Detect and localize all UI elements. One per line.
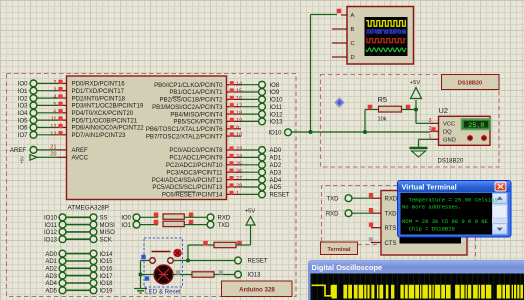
svg-text:Virtual Terminal: Virtual Terminal — [402, 182, 457, 191]
svg-text:TXD: TXD — [327, 196, 340, 202]
svg-text:ROM = 28 30 C5 88 0 0 0 8E: ROM = 28 30 C5 88 0 0 0 8E — [402, 218, 489, 225]
resistor RX1 — [163, 214, 184, 219]
wire button/LED left vertical — [140, 261, 142, 289]
pin 5 PD3/INT1/OC2B/PCINT19 / terminal IO3 — [18, 102, 144, 110]
svg-text:DS18B20: DS18B20 — [458, 81, 482, 87]
svg-text:PD6/AIN0/OC0A/PCINT22: PD6/AIN0/OC0A/PCINT22 — [72, 125, 145, 132]
U2 pin 2 DQ — [429, 126, 453, 135]
virtual terminal text — [402, 196, 498, 232]
pin 2 PD0/RXD/PCINT16 / terminal IO0 — [18, 80, 125, 88]
pin 10 PB7/TOSC2/XTAL2/PCINT7 — [146, 133, 242, 141]
svg-text:13: 13 — [50, 131, 56, 137]
svg-text:PC5/ADC5/SCL/PCINT13: PC5/ADC5/SCL/PCINT13 — [152, 184, 223, 191]
svg-text:4: 4 — [53, 95, 56, 101]
selection handle (blue, logic-low pin square) — [141, 255, 145, 259]
U2 pin 1 GND — [429, 134, 456, 143]
svg-text:3: 3 — [53, 87, 56, 93]
svg-text:AD4: AD4 — [45, 281, 57, 287]
svg-text:No more addresses.: No more addresses. — [402, 204, 461, 211]
svg-text:AD5: AD5 — [45, 289, 57, 295]
svg-text:RXD: RXD — [385, 197, 398, 203]
oscilloscope screen — [365, 17, 408, 56]
header pair IO11 - MOSI — [44, 221, 115, 229]
header pair AD5 - IO19 — [45, 287, 113, 295]
svg-text:IO17: IO17 — [100, 274, 114, 280]
svg-text:IO19: IO19 — [100, 289, 114, 295]
wire +5V vertical — [415, 100, 417, 123]
terminal RXD — [207, 214, 231, 222]
pin 4 PD2/INT0/PCINT18 / terminal IO2 — [18, 94, 126, 102]
wire to U2 VCC — [416, 122, 430, 124]
terminal IO0 — [121, 214, 140, 222]
svg-text:PD2/INT0/PCINT18: PD2/INT0/PCINT18 — [72, 95, 126, 102]
IC U2 DS18B20 body — [439, 116, 491, 145]
svg-text:PB0/ICP1/CLKO/PCINT0: PB0/ICP1/CLKO/PCINT0 — [154, 82, 223, 89]
wire LED cathode to resistor — [173, 270, 192, 274]
junction at LED left — [139, 273, 143, 277]
wire to LED anode — [141, 274, 155, 276]
push button: actuator bar — [152, 251, 171, 253]
waveform channel C (red) — [366, 39, 406, 43]
scope graticule — [312, 274, 521, 300]
wire R to RXD — [184, 213, 207, 218]
pin 28 PC5/ADC5/SCL/PCINT13 / terminal AD5 — [152, 183, 281, 191]
svg-text:R5: R5 — [378, 95, 387, 104]
terminal RESET — [235, 257, 268, 265]
wire horizontal to scope input A — [311, 9, 342, 15]
waveform channel D (green sine) — [366, 48, 406, 52]
svg-text:AD3: AD3 — [45, 274, 57, 280]
wire R-pullup right to +5V — [236, 226, 251, 246]
DS18B20 sub-sheet dashed border — [321, 75, 500, 168]
svg-text:AD0: AD0 — [45, 252, 57, 258]
svg-text:IO9: IO9 — [270, 90, 280, 96]
oscilloscope body — [347, 7, 414, 65]
Terminal sub-sheet dashed border — [322, 186, 398, 243]
resistor R-pullup — [214, 242, 236, 247]
terminal RXD (left) — [326, 210, 352, 218]
resistor R5 — [379, 106, 402, 112]
svg-text:RTS: RTS — [385, 226, 397, 232]
svg-text:PC1/ADC1/PCINT9: PC1/ADC1/PCINT9 — [169, 155, 223, 162]
svg-text:IO16: IO16 — [100, 267, 114, 273]
terminal IO13 (led) — [235, 271, 262, 279]
U2 buttons +/- — [467, 135, 487, 141]
svg-text:IO14: IO14 — [100, 252, 114, 258]
header pair AD2 - IO16 — [45, 265, 113, 273]
resistor R-led — [192, 272, 214, 277]
pin 20 AVCC with +5V power arrow — [20, 152, 89, 164]
junction RESET node — [186, 259, 190, 263]
svg-text:+5V: +5V — [245, 209, 256, 215]
svg-text:GND: GND — [443, 138, 456, 144]
terminal TXD — [207, 221, 230, 229]
wire R5 right to +5V rail — [402, 105, 417, 110]
pin 15 PB1/OC1A/PCINT1 / terminal IO9 — [169, 88, 280, 96]
digital trace (yellow) — [312, 285, 332, 296]
svg-text:D: D — [351, 55, 355, 61]
svg-text:PD5/T1/OC0B/PCINT21: PD5/T1/OC0B/PCINT21 — [72, 117, 138, 124]
svg-text:IO15: IO15 — [100, 259, 114, 265]
terminal component pin CTS — [369, 237, 397, 247]
svg-text:IO12: IO12 — [270, 112, 284, 118]
svg-text:PD3/INT1/OC2B/PCINT19: PD3/INT1/OC2B/PCINT19 — [72, 103, 144, 110]
pin 27 PC4/ADC4/SDA/PCINT12 / terminal AD4 — [152, 176, 282, 184]
svg-text:PB6/TOSC1/XTAL1/PCINT6: PB6/TOSC1/XTAL1/PCINT6 — [146, 126, 223, 133]
svg-text:RESET: RESET — [270, 193, 290, 199]
svg-text:MOSI: MOSI — [100, 223, 116, 229]
svg-text:AREF: AREF — [72, 147, 89, 154]
U2 temperature display 25.0 — [462, 119, 491, 130]
svg-text:IO10: IO10 — [268, 131, 282, 137]
svg-text:IO8: IO8 — [270, 83, 280, 89]
svg-text:PC3/ADC3/PCINT11: PC3/ADC3/PCINT11 — [166, 169, 223, 176]
svg-text:9: 9 — [236, 125, 239, 131]
terminal IO1 — [121, 221, 140, 229]
wire to R5 left — [365, 105, 379, 110]
svg-text:Digital Oscilloscope: Digital Oscilloscope — [312, 263, 383, 272]
svg-text:RXD: RXD — [218, 216, 231, 222]
terminal component pin RXD — [369, 193, 398, 203]
svg-text:DQ: DQ — [443, 130, 452, 136]
svg-text:AD2: AD2 — [270, 163, 282, 169]
svg-text:PC6/RESET/PCINT14: PC6/RESET/PCINT14 — [162, 192, 223, 199]
oscilloscope input B — [332, 27, 355, 33]
pin 12 PD6/AIN0/OC0A/PCINT22 / terminal IO6 — [18, 124, 144, 132]
svg-text:PB7/TOSC2/XTAL2/PCINT7: PB7/TOSC2/XTAL2/PCINT7 — [146, 133, 223, 140]
pin 16 PB2/[SS]/OC1B/PCINT2 / terminal IO10 — [159, 96, 283, 104]
svg-text:IO10: IO10 — [270, 98, 284, 104]
svg-text:CTS: CTS — [385, 241, 397, 247]
svg-text:Chip = DS18B20: Chip = DS18B20 — [402, 226, 455, 233]
header pair AD4 - IO18 — [45, 280, 113, 288]
ground (U2) — [410, 148, 428, 157]
svg-text:6: 6 — [53, 109, 56, 115]
ground (LED group) — [134, 289, 147, 294]
svg-text:21: 21 — [50, 144, 56, 150]
svg-text:AD3: AD3 — [270, 170, 282, 176]
svg-text:AD1: AD1 — [270, 156, 282, 162]
svg-text:MISO: MISO — [100, 230, 116, 236]
svg-text:IO13: IO13 — [44, 237, 58, 243]
svg-text:PB2/SS/OC1B/PCINT2: PB2/SS/OC1B/PCINT2 — [159, 97, 223, 104]
terminal TXD (left) — [327, 195, 352, 203]
pin 6 PD4/T0/XCK/PCINT20 / terminal IO4 — [18, 109, 134, 117]
power +5V (reset pullup) — [245, 209, 256, 226]
svg-text:AD0: AD0 — [270, 148, 282, 154]
svg-text:2: 2 — [53, 80, 56, 86]
header pair IO13 - SCK — [44, 236, 112, 244]
terminal component pin RTS — [369, 223, 397, 233]
wire R to TXD — [184, 220, 207, 225]
Arduino 328 sub-sheet dashed border — [7, 74, 297, 297]
pin 23 PC0/ADC0/PCINT8 / terminal AD0 — [169, 146, 282, 154]
svg-text:10k: 10k — [378, 117, 387, 123]
resistor RX2 — [163, 221, 184, 226]
svg-text:3: 3 — [429, 118, 432, 124]
pin 25 PC2/ADC2/PCINT10 / terminal AD2 — [166, 161, 282, 169]
svg-text:IO12: IO12 — [44, 230, 58, 236]
wire IO10 horizontal to DQ — [292, 131, 431, 133]
svg-text:U2: U2 — [439, 106, 448, 115]
wire resistor to IO13 terminal — [214, 270, 234, 274]
svg-text:12: 12 — [50, 124, 56, 130]
wire to R-pullup left — [188, 241, 214, 246]
svg-text:IO3: IO3 — [18, 104, 28, 110]
oscilloscope input A — [351, 13, 355, 19]
waveform channel B (blue) — [366, 30, 406, 33]
svg-text:IO10: IO10 — [44, 216, 58, 222]
svg-text:TXD: TXD — [385, 212, 398, 218]
svg-text:IO13: IO13 — [248, 273, 262, 279]
wire button right to RESET terminal — [173, 260, 234, 262]
push button contact left — [150, 258, 156, 264]
svg-text:PB3/MOSI/OC2A/PCINT3: PB3/MOSI/OC2A/PCINT3 — [152, 104, 223, 111]
svg-text:20: 20 — [50, 152, 56, 158]
svg-text:Temperature = 25.00 Celsius: Temperature = 25.00 Celsius — [402, 196, 498, 203]
svg-text:IO13: IO13 — [270, 120, 284, 126]
svg-text:11: 11 — [51, 117, 57, 123]
svg-text:5: 5 — [53, 102, 56, 108]
header pair IO12 - MISO — [44, 229, 115, 237]
wire IO0 to R (RX line) — [140, 213, 158, 218]
svg-text:IO1: IO1 — [121, 223, 131, 229]
svg-text:+5V: +5V — [410, 80, 421, 86]
LED D1 (red) — [154, 265, 173, 284]
junction +5V rail — [414, 108, 418, 112]
svg-text:AD4: AD4 — [270, 178, 282, 184]
svg-text:IO0: IO0 — [18, 82, 28, 88]
wire left vert to button — [141, 260, 150, 262]
pin 14 PB0/ICP1/CLKO/PCINT0 / terminal IO8 — [154, 81, 280, 89]
svg-text:LED & Reset: LED & Reset — [145, 289, 181, 296]
header pair AD0 - IO14 — [45, 250, 113, 258]
svg-text:IO18: IO18 — [100, 281, 114, 287]
DS18B20 sheet tab — [442, 75, 500, 90]
svg-text:IO11: IO11 — [44, 223, 57, 229]
pin 9 PB6/TOSC1/XTAL1/PCINT6 — [146, 125, 241, 133]
junction scope branch — [309, 130, 313, 134]
svg-text:RESET: RESET — [248, 259, 268, 265]
svg-text:1: 1 — [236, 191, 239, 197]
oscilloscope input C — [332, 41, 355, 47]
svg-text:PD7/AIN1/PCINT23: PD7/AIN1/PCINT23 — [72, 132, 126, 139]
svg-text:PC4/ADC4/SDA/PCINT12: PC4/ADC4/SDA/PCINT12 — [152, 177, 223, 184]
waveform channel A (yellow) — [366, 21, 406, 27]
wire R5 left vertical — [364, 110, 366, 133]
svg-text:IO4: IO4 — [18, 111, 28, 117]
header pair IO10 - SS — [44, 214, 108, 222]
svg-text:PD0/RXD/PCINT16: PD0/RXD/PCINT16 — [72, 81, 126, 88]
svg-text:SS: SS — [100, 216, 108, 222]
pin 18 PB4/MISO/PCINT4 / terminal IO12 — [170, 111, 283, 119]
svg-text:RXD: RXD — [326, 211, 339, 217]
svg-text:A: A — [351, 13, 355, 19]
terminal IO10 net — [268, 129, 291, 137]
wire IO1 to R (TX line) — [140, 220, 158, 225]
svg-text:PB5/SCK/PCINT5: PB5/SCK/PCINT5 — [173, 119, 223, 126]
Arduino 328 sheet tab — [222, 281, 293, 297]
power +5V (DS18B20) — [410, 80, 422, 99]
svg-text:IO11: IO11 — [270, 105, 283, 111]
svg-text:PD4/T0/XCK/PCINT20: PD4/T0/XCK/PCINT20 — [72, 110, 134, 117]
U2 pin 3 VCC — [429, 118, 456, 127]
svg-text:Terminal: Terminal — [328, 247, 351, 253]
svg-text:ATMEGA328P: ATMEGA328P — [68, 205, 109, 212]
svg-text:25.0: 25.0 — [468, 122, 484, 130]
svg-text:PC0/ADC0/PCINT8: PC0/ADC0/PCINT8 — [169, 147, 223, 154]
svg-text:AVCC: AVCC — [72, 155, 89, 162]
wire TXD to RXD pin — [352, 197, 371, 199]
pin 21 AREF / terminal AREF — [10, 144, 88, 154]
svg-text:SCK: SCK — [100, 237, 112, 243]
pin 1 PC6/[RESET]/PCINT14 / terminal RESET — [162, 191, 290, 199]
Terminal sheet tab — [321, 242, 358, 255]
svg-text:PC2/ADC2/PCINT10: PC2/ADC2/PCINT10 — [166, 162, 223, 169]
selection handle 2 (blue) — [145, 276, 149, 280]
svg-text:DS18B20: DS18B20 — [438, 159, 464, 165]
svg-text:IO1: IO1 — [18, 89, 28, 95]
pin 13 PD7/AIN1/PCINT23 / terminal IO7 — [18, 131, 126, 139]
wire U2 GND down — [419, 139, 431, 147]
svg-text:C: C — [351, 41, 355, 47]
svg-text:PB1/OC1A/PCINT1: PB1/OC1A/PCINT1 — [169, 89, 223, 96]
wire vertical to oscilloscope A — [310, 15, 312, 133]
svg-text:AD1: AD1 — [45, 259, 57, 265]
svg-text:IO0: IO0 — [121, 216, 131, 222]
pin 26 PC3/ADC3/PCINT11 / terminal AD3 — [166, 169, 281, 177]
svg-text:IO5: IO5 — [18, 118, 28, 124]
pin 11 PD5/T1/OC0B/PCINT21 / terminal IO5 — [18, 116, 138, 124]
terminal component pin TXD — [369, 208, 397, 218]
Virtual Terminal popup window — [398, 181, 512, 238]
svg-text:AD2: AD2 — [45, 267, 57, 273]
svg-text:+5V: +5V — [20, 156, 25, 164]
pin 19 PB5/SCK/PCINT5 / terminal IO13 — [173, 118, 283, 126]
svg-text:PB4/MISO/PCINT4: PB4/MISO/PCINT4 — [170, 111, 223, 118]
push button knob (red) — [173, 249, 181, 257]
Digital Oscilloscope popup window — [308, 260, 524, 300]
svg-text:TXD: TXD — [218, 223, 231, 229]
svg-text:IO2: IO2 — [18, 96, 28, 102]
blue placement diamond marker — [335, 98, 343, 106]
wire RESET node up to pullup resistor — [187, 245, 189, 261]
oscilloscope input D — [332, 55, 355, 61]
svg-text:Arduino 328: Arduino 328 — [239, 287, 275, 294]
pin 3 PD1/TXD/PCINT17 / terminal IO1 — [18, 87, 125, 95]
terminal component body (behind VT window) — [381, 191, 467, 256]
svg-text:VCC: VCC — [443, 122, 455, 128]
IC U1 ATMEGA328P body — [67, 76, 227, 200]
terminal component screen strip — [400, 196, 462, 244]
push button contact right — [168, 258, 174, 264]
svg-text:IO7: IO7 — [18, 133, 28, 139]
selection box LED & Reset (blue dashed) — [144, 238, 183, 287]
svg-text:B: B — [351, 27, 355, 33]
svg-text:2: 2 — [429, 126, 432, 132]
header pair AD1 - IO15 — [45, 258, 113, 266]
svg-text:AD5: AD5 — [270, 185, 282, 191]
junction R5 branch — [363, 130, 367, 134]
svg-text:PD1/TXD/PCINT17: PD1/TXD/PCINT17 — [72, 88, 125, 95]
header pair AD3 - IO17 — [45, 272, 113, 280]
pin 24 PC1/ADC1/PCINT9 / terminal AD1 — [169, 154, 282, 162]
wire RXD to TXD pin — [352, 212, 371, 214]
svg-text:AREF: AREF — [10, 148, 26, 154]
svg-text:IO6: IO6 — [18, 126, 28, 132]
svg-text:10: 10 — [236, 133, 242, 139]
pin 17 PB3/MOSI/OC2A/PCINT3 / terminal IO11 — [152, 103, 283, 111]
